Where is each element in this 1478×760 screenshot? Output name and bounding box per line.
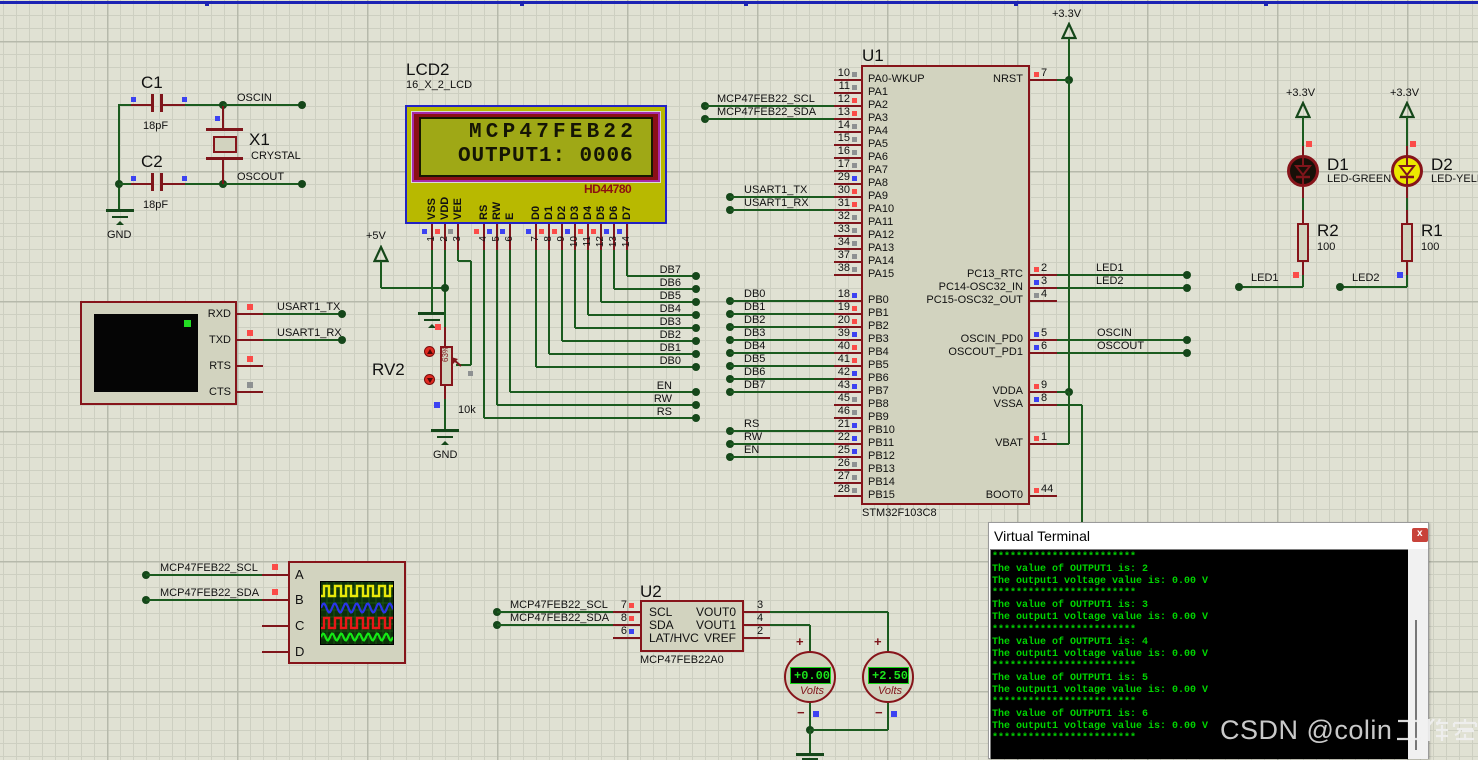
wire USART1_RX net: [0, 0, 1, 1]
wire LCD DB3 net: [0, 0, 1, 1]
DAC U2 MCP47FEB22A0: [0, 0, 1, 1]
sheet border top rule: [0, 0, 1, 1]
wire LCD RW net: [0, 0, 1, 1]
ground GND under C2: [0, 0, 1, 1]
power +3.3V rail to NRST VDDA VBAT: [0, 0, 1, 1]
wire DB6 to U1: [0, 0, 1, 1]
wire LCD EN net: [0, 0, 1, 1]
wire MCP47FEB22_SDA to oscilloscope B: [0, 0, 1, 1]
oscilloscope instrument A B C D: [0, 0, 1, 1]
wire LED2 net right of U1: [0, 0, 1, 1]
wire LED1 net right of U1: [0, 0, 1, 1]
wire USART1_TX to U1: [0, 0, 1, 1]
voltmeter +0.00 Volts: [0, 0, 1, 1]
power +5V: [0, 0, 1, 1]
wire EN to U1: [0, 0, 1, 1]
wire DB7 to U1: [0, 0, 1, 1]
wire RS to U1: [0, 0, 1, 1]
wire LCD pin2 VDD rail / node +5V junction: [0, 0, 1, 1]
node OSCOUT wire: [0, 0, 1, 1]
wire LCD DB2 net: [0, 0, 1, 1]
wire LCD DB5 net: [0, 0, 1, 1]
wire DB2 to U1: [0, 0, 1, 1]
wire MCP47FEB22_SDA to U2: [0, 0, 1, 1]
microcontroller U1 STM32F103C8: [0, 0, 1, 1]
wire VOUT0 to voltmeter: [0, 0, 1, 1]
capacitor C2 18pF: [0, 0, 1, 1]
Virtual Terminal window: [0, 0, 1, 1]
ground under voltmeters: [0, 0, 1, 1]
LED D1 LED-GREEN with resistor R2 100: [0, 0, 1, 1]
wire LCD DB4 net: [0, 0, 1, 1]
wire LCD RS net: [0, 0, 1, 1]
wire MCP47FEB22_SCL to U2: [0, 0, 1, 1]
LED D2 LED-YELLOW with resistor R1 100: [0, 0, 1, 1]
wire LCD DB7 net: [0, 0, 1, 1]
node OSCIN wire: [0, 0, 1, 1]
wire DB5 to U1: [0, 0, 1, 1]
wire DB4 to U1: [0, 0, 1, 1]
wire MCP47FEB22_SDA to U1: [0, 0, 1, 1]
wire LCD DB1 net: [0, 0, 1, 1]
wire LCD pin3 VEE to RV2 wiper: [0, 0, 1, 1]
virtual terminal instrument (RXD TXD RTS CTS): [0, 0, 1, 1]
LCD display LCD2 16x2 HD44780: [0, 0, 1, 1]
wire OSCIN net right of U1: [0, 0, 1, 1]
wire RW to U1: [0, 0, 1, 1]
wire USART1_RX to U1: [0, 0, 1, 1]
CSDN watermark: [0, 0, 1, 1]
wire VSSA down: [0, 0, 1, 1]
ground GND under RV2: [0, 0, 1, 1]
wire LCD DB0 net: [0, 0, 1, 1]
capacitor C1 18pF: [0, 0, 1, 1]
wire MCP47FEB22_SCL to oscilloscope A: [0, 0, 1, 1]
voltmeter +2.50 Volts: [0, 0, 1, 1]
wire DB3 to U1: [0, 0, 1, 1]
wire DB0 to U1: [0, 0, 1, 1]
wire LCD DB6 net: [0, 0, 1, 1]
wire USART1_TX net: [0, 0, 1, 1]
wire left vertical OSCIN/OSCOUT to GND: [0, 0, 1, 1]
crystal X1: [0, 0, 1, 1]
wire VOUT1 to voltmeter: [0, 0, 1, 1]
wire LCD pin1 VSS to ground: [0, 0, 1, 1]
potentiometer RV2 10k: [0, 0, 1, 1]
wire DB1 to U1: [0, 0, 1, 1]
wire OSCOUT net right of U1: [0, 0, 1, 1]
wire MCP47FEB22_SCL to U1: [0, 0, 1, 1]
